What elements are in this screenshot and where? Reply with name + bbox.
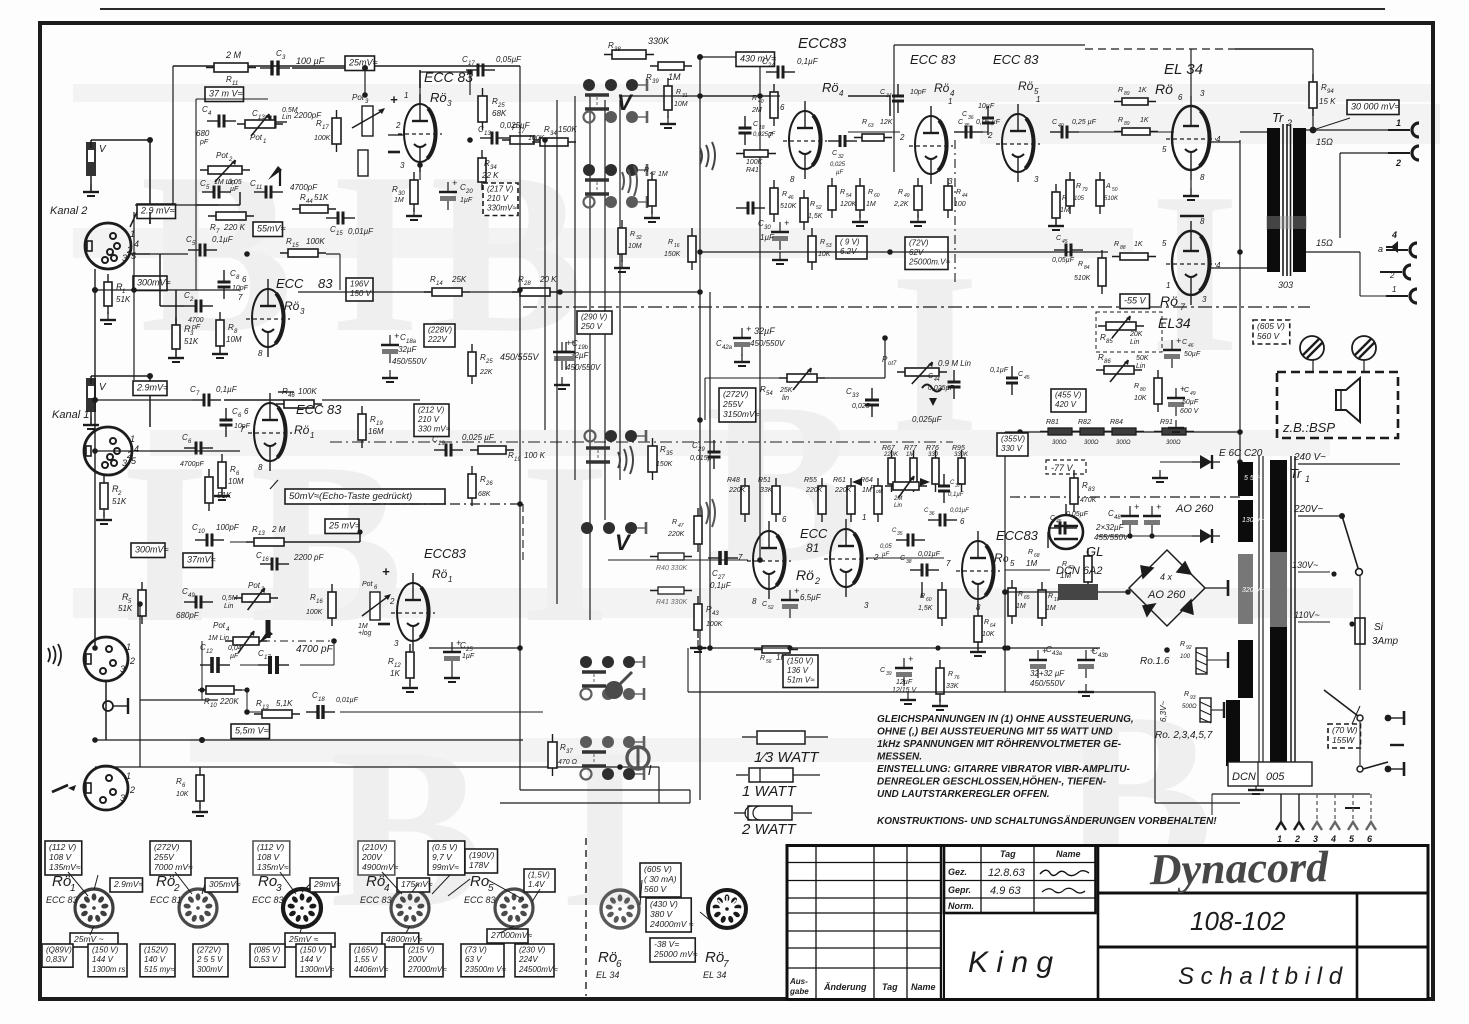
svg-text:7: 7 (946, 559, 951, 568)
svg-text:Rö: Rö (284, 299, 300, 313)
svg-text:Tr: Tr (1290, 466, 1302, 481)
resistor R40b 330K (650, 553, 692, 560)
box DCN 005 (1228, 762, 1312, 786)
label 150V box (783, 655, 818, 688)
potentiometer Pot1 (237, 120, 283, 128)
svg-text:17: 17 (322, 125, 329, 131)
ground (168, 350, 184, 362)
wire (95, 766, 659, 768)
svg-text:(112 V): (112 V) (257, 842, 284, 852)
wire input bus (94, 269, 96, 600)
svg-text:0,01µF: 0,01µF (950, 508, 969, 514)
ground (660, 116, 676, 128)
svg-text:4406mV≈: 4406mV≈ (354, 965, 389, 974)
svg-text:(150 V): (150 V) (787, 657, 814, 666)
svg-text:38: 38 (614, 47, 621, 53)
svg-text:178V: 178V (469, 860, 490, 870)
revision table grid (787, 845, 941, 1000)
svg-text:R95: R95 (952, 445, 965, 452)
svg-text:(112 V): (112 V) (49, 842, 76, 852)
wire output line2 (1340, 152, 1404, 154)
svg-text:8: 8 (790, 175, 795, 184)
connector jack 5 (1380, 265, 1411, 279)
label 55mV box (253, 222, 286, 237)
svg-text:3: 3 (300, 307, 305, 316)
resistor R16b 100K (328, 584, 336, 626)
svg-text:EL 34: EL 34 (596, 970, 619, 980)
wire vertical trunk 1 (544, 140, 546, 430)
svg-text:4: 4 (1216, 135, 1221, 144)
label box (215 V) (404, 944, 447, 977)
ground (690, 640, 706, 652)
svg-text:R: R (1134, 383, 1139, 390)
wire (700, 56, 736, 58)
svg-text:220K: 220K (883, 452, 899, 458)
ground (932, 698, 948, 710)
capacitor C11 (254, 186, 283, 199)
resistor R15 100K (280, 249, 326, 257)
voltage selector lever (1342, 516, 1358, 568)
svg-text:5,1K: 5,1K (276, 699, 293, 708)
svg-text:330K: 330K (954, 452, 969, 458)
svg-text:44: 44 (306, 199, 313, 205)
svg-text:12µF: 12µF (896, 679, 913, 686)
resistor R51 33K (772, 478, 780, 522)
svg-text:-77 V: -77 V (1051, 463, 1074, 473)
wire (700, 419, 760, 421)
wire (889, 232, 891, 252)
svg-text:420 V: 420 V (1055, 400, 1077, 409)
wire (1207, 659, 1228, 661)
wire (172, 66, 174, 205)
svg-text:224V: 224V (518, 955, 538, 964)
svg-text:(0.5 V): (0.5 V) (432, 842, 458, 852)
svg-text:680pF: 680pF (176, 611, 200, 620)
svg-text:7: 7 (238, 293, 243, 302)
svg-text:16: 16 (262, 557, 269, 563)
fuse Si 3Amp (1355, 618, 1365, 644)
svg-text:UND LAUTSTARKEREGLER OFFEN.: UND LAUTSTARKEREGLER OFFEN. (877, 789, 1050, 800)
svg-text:0,83V: 0,83V (46, 955, 68, 964)
wire echo left vert (195, 140, 197, 290)
svg-text:470 Ω: 470 Ω (558, 759, 578, 766)
svg-text:2: 2 (129, 785, 135, 795)
svg-text:13: 13 (484, 131, 491, 137)
svg-text:1.4V: 1.4V (528, 880, 545, 889)
wire output line1 (1306, 129, 1404, 131)
svg-text:32: 32 (636, 235, 642, 241)
svg-text:3: 3 (120, 793, 125, 803)
svg-text:35: 35 (964, 123, 970, 129)
svg-text:25mV≈: 25mV≈ (348, 58, 378, 68)
svg-text:515 my≈: 515 my≈ (144, 965, 175, 974)
svg-text:25000m.V≈: 25000m.V≈ (908, 258, 950, 267)
wire (1005, 654, 1038, 656)
label 196V box (346, 278, 373, 301)
resistor R60 1M (856, 178, 864, 218)
resistor R41 100K (736, 150, 776, 157)
svg-text:63: 63 (868, 123, 874, 129)
svg-text:25 mV=: 25 mV= (328, 521, 360, 531)
svg-text:R: R (862, 119, 867, 126)
label 300mV box (131, 543, 169, 558)
node (1002, 589, 1008, 595)
svg-text:EINSTELLUNG: GITARRE VIBRATOR: EINSTELLUNG: GITARRE VIBRATOR VIBR-AMPLI… (877, 764, 1130, 775)
ground Tr1 (1248, 782, 1264, 794)
svg-text:305mV≈: 305mV≈ (209, 879, 241, 889)
svg-text:45: 45 (1024, 375, 1030, 381)
svg-text:560 V: 560 V (1257, 331, 1281, 341)
svg-text:5: 5 (488, 883, 494, 894)
wire (419, 72, 421, 104)
label 25mV box (345, 56, 378, 71)
svg-text:510K: 510K (780, 203, 797, 210)
svg-text:7: 7 (738, 553, 743, 562)
label 455V box (1051, 389, 1086, 412)
signature 2 (1042, 888, 1085, 893)
dashed frame R85 (1096, 312, 1162, 352)
label box 1.5V (524, 869, 555, 892)
resistor R39 1M (650, 62, 692, 70)
capacitor C33 (865, 388, 879, 417)
svg-text:22K: 22K (479, 369, 493, 376)
svg-text:a: a (1378, 244, 1383, 254)
connector DIN Kanal 2 (85, 223, 139, 269)
svg-text:450/550V: 450/550V (566, 363, 601, 372)
svg-text:µF: µF (836, 170, 843, 176)
svg-text:83: 83 (1088, 487, 1095, 493)
label box (0.5 V) (428, 841, 465, 875)
svg-text:4700pF: 4700pF (180, 461, 204, 468)
resistor R6 10M (218, 454, 226, 496)
svg-text:R: R (782, 191, 787, 198)
svg-text:32µF: 32µF (398, 345, 418, 354)
resistor R93 (1200, 698, 1211, 723)
wire (1005, 591, 1058, 593)
svg-text:+: + (784, 218, 789, 228)
wire vertical trunk 2 (556, 100, 558, 604)
ground bar (1223, 702, 1225, 718)
svg-text:2200 pF: 2200 pF (293, 553, 324, 562)
capacitor C36 (928, 514, 957, 527)
svg-text:1K: 1K (1138, 87, 1147, 94)
svg-text:155W: 155W (1332, 735, 1355, 745)
svg-text:I: I (1150, 145, 1240, 400)
resistor R48 220K (741, 478, 749, 522)
svg-text:GLEICHSPANNUNGEN IN (1) OHNE A: GLEICHSPANNUNGEN IN (1) OHNE AUSSTEUERUN… (877, 714, 1134, 725)
resistor R94 15K (1309, 74, 1317, 116)
potentiometer Pot3b (234, 594, 278, 602)
svg-text:R: R (630, 231, 635, 238)
svg-text:35: 35 (666, 451, 673, 457)
svg-text:(72V): (72V) (909, 239, 929, 248)
wire (1312, 49, 1314, 82)
svg-text:140 V: 140 V (144, 955, 166, 964)
svg-text:108-102: 108-102 (1190, 906, 1286, 936)
connector jack 4 (1386, 243, 1417, 257)
resistor R89 1K (1114, 128, 1158, 135)
tube EL34 Ro6 (1166, 96, 1216, 180)
svg-text:120K: 120K (840, 201, 857, 208)
tube ECC83 Ro4b (909, 106, 953, 184)
svg-text:Tag: Tag (1000, 849, 1016, 859)
wire (1005, 431, 1240, 433)
svg-text:380 V: 380 V (650, 909, 674, 919)
svg-text:Rö: Rö (934, 81, 950, 95)
wire vertical trunk 5 (604, 100, 606, 520)
svg-text:50K: 50K (1136, 355, 1149, 362)
transformer Tr1 primary top (1270, 460, 1287, 552)
svg-text:(430 V): (430 V) (650, 899, 678, 909)
transformer Tr1 primary bot (1270, 627, 1287, 766)
resistor R13b 51K (254, 710, 300, 718)
wire (620, 95, 770, 97)
svg-text:+: + (1156, 502, 1161, 512)
tube ECC83 Ro5a (996, 104, 1040, 182)
ground (734, 354, 750, 366)
svg-text:32+32 µF: 32+32 µF (1030, 669, 1065, 678)
label 355V box (997, 433, 1028, 456)
svg-text:Rö: Rö (430, 90, 447, 105)
svg-text:220V~: 220V~ (1293, 504, 1323, 515)
wire (131, 253, 150, 255)
tube socket Rö1 (75, 889, 113, 927)
node (1125, 589, 1131, 595)
ground (644, 210, 660, 222)
svg-text:1,55 V: 1,55 V (354, 955, 378, 964)
svg-text:( 9 V): ( 9 V) (840, 238, 860, 247)
svg-text:0,05 µF: 0,05 µF (976, 119, 1001, 126)
svg-text:Pot: Pot (213, 621, 226, 630)
potentiometer Pot8 2M lin (885, 482, 927, 490)
tube ECC81 Ro2a (747, 521, 791, 599)
wire echo top (173, 65, 520, 67)
node (147, 373, 153, 379)
wire (90, 140, 92, 148)
wire dashdot y442 (330, 441, 953, 443)
capacitor C45b (1054, 244, 1083, 257)
svg-text:33K: 33K (760, 487, 773, 494)
node (1164, 647, 1170, 653)
svg-text:39: 39 (652, 79, 659, 85)
svg-text:R: R (760, 655, 765, 662)
wire vertical trunk 3 (574, 96, 576, 480)
label box (152V) (140, 944, 175, 977)
svg-text:500Ω: 500Ω (1182, 704, 1197, 710)
resistor R15 100K (276, 400, 322, 408)
svg-text:0,1µF: 0,1µF (216, 385, 238, 394)
capacitor C48a elco (1121, 502, 1139, 534)
resistor R84 510K (1098, 250, 1106, 294)
svg-text:ECC: ECC (800, 526, 828, 541)
transformer Tr2 primary winding (1267, 128, 1280, 272)
svg-text:200V: 200V (361, 852, 383, 862)
label box 605V (640, 863, 681, 897)
svg-text:50µF: 50µF (1184, 351, 1201, 358)
svg-text:Norm.: Norm. (948, 901, 974, 911)
wire (150, 253, 188, 255)
svg-text:130V~: 130V~ (1292, 560, 1318, 570)
svg-text:0,04: 0,04 (228, 645, 242, 652)
wire row290 (620, 291, 700, 293)
svg-text:1: 1 (126, 771, 131, 781)
svg-text:100K: 100K (306, 237, 325, 246)
svg-text:10M: 10M (226, 335, 242, 344)
svg-text:4: 4 (1330, 834, 1336, 844)
ground (406, 208, 422, 220)
wire (1205, 587, 1228, 589)
svg-text:42a: 42a (722, 345, 733, 351)
wire (175, 290, 177, 325)
svg-text:R: R (1118, 87, 1123, 94)
svg-text:2 WATT: 2 WATT (741, 821, 797, 838)
svg-text:10K: 10K (982, 631, 995, 638)
svg-text:DENREGLER GESCHLOSSEN,HÖHEN-,: DENREGLER GESCHLOSSEN,HÖHEN-, TIEFEN- (877, 775, 1107, 788)
svg-text:68K: 68K (478, 491, 491, 498)
resistor R3 51K (172, 317, 180, 357)
bridge rectifier 4x AO 260 (1129, 550, 1205, 626)
svg-text:36: 36 (968, 115, 974, 121)
tube ECC83 Ro1a (248, 393, 292, 471)
svg-text:65: 65 (1024, 595, 1030, 601)
wire (848, 95, 890, 97)
wire (1306, 267, 1340, 269)
svg-text:(290 V): (290 V) (581, 313, 608, 322)
svg-text:0,025µF: 0,025µF (753, 132, 775, 138)
svg-text:51K: 51K (314, 193, 329, 202)
svg-text:R76: R76 (926, 445, 939, 452)
svg-text:3: 3 (394, 639, 399, 648)
wire (1306, 251, 1360, 253)
svg-text:93: 93 (1190, 695, 1196, 701)
wire (224, 399, 284, 401)
wire vertical trunk 8 (709, 292, 711, 648)
svg-text:16: 16 (316, 599, 323, 605)
label minus (388, 151, 400, 154)
svg-text:8: 8 (976, 603, 981, 612)
svg-text:330 V: 330 V (1001, 444, 1023, 453)
ground (192, 804, 208, 816)
capacitor C15 (326, 212, 355, 225)
svg-text:Aus-: Aus- (789, 977, 808, 986)
resistor R64 1M (874, 478, 882, 522)
svg-text:Lin: Lin (894, 503, 903, 509)
svg-text:(Q89V): (Q89V) (46, 946, 72, 955)
svg-text:600 V: 600 V (1180, 408, 1200, 415)
svg-text:(190V): (190V) (469, 850, 495, 860)
svg-text:5: 5 (1162, 145, 1167, 154)
svg-text:100: 100 (954, 201, 966, 208)
resistor R16 100K (278, 391, 294, 393)
ground (402, 680, 418, 692)
label box 190V (465, 849, 498, 873)
switch row mid 1 (585, 430, 647, 462)
ground (96, 512, 112, 524)
svg-text:+: + (1176, 336, 1181, 346)
svg-text:110V~: 110V~ (1294, 610, 1320, 620)
wire (149, 140, 151, 224)
ground (614, 260, 630, 272)
svg-text:100K: 100K (298, 387, 317, 396)
svg-text:100 µF: 100 µF (296, 56, 325, 66)
svg-text:ECC 83: ECC 83 (252, 895, 284, 905)
resistor R81 300Ω (1040, 428, 1080, 435)
svg-text:R: R (1078, 261, 1083, 268)
svg-text:51K: 51K (112, 497, 127, 506)
svg-text:1K: 1K (1134, 241, 1143, 248)
wire grid EL34 Ro6 (1076, 131, 1122, 133)
label box (73 V) (461, 944, 506, 977)
capacitor C1 input (86, 142, 96, 176)
svg-text:450/550V: 450/550V (392, 357, 427, 366)
label box (085 V) (250, 944, 285, 967)
svg-text:100 K: 100 K (524, 451, 546, 460)
wire to box (1313, 118, 1350, 130)
svg-text:47: 47 (678, 523, 684, 529)
svg-text:300mV≈: 300mV≈ (135, 545, 169, 555)
wire frame (894, 44, 1085, 46)
label box 4800mV (382, 933, 423, 947)
potentiometer R86 (1096, 366, 1142, 374)
capacitor C38 (910, 564, 939, 577)
svg-text:DCN 6A2: DCN 6A2 (1056, 565, 1102, 577)
svg-text:R: R (1114, 241, 1119, 248)
resistor R47 220K (694, 508, 702, 552)
svg-text:29: 29 (697, 447, 705, 453)
svg-text:R: R (676, 89, 681, 96)
svg-text:1M: 1M (1016, 603, 1026, 610)
svg-text:4: 4 (134, 239, 139, 249)
resistor R2 51K (100, 475, 108, 517)
svg-text:108 V: 108 V (257, 852, 281, 862)
transformer Tr2 fade (1266, 216, 1307, 229)
wire (90, 176, 92, 186)
svg-text:100K: 100K (746, 159, 763, 166)
svg-text:37: 37 (955, 483, 961, 489)
label -55V box (1120, 294, 1150, 309)
svg-text:220K: 220K (667, 531, 685, 538)
resistor R34 22K (478, 150, 486, 190)
wire echo dashed mid (522, 504, 524, 560)
wire (1359, 252, 1361, 296)
svg-text:2: 2 (389, 597, 395, 606)
svg-text:26: 26 (485, 481, 493, 487)
label box (165V) (350, 944, 389, 977)
svg-text:44: 44 (934, 377, 940, 383)
title king cell line (943, 913, 945, 999)
label 212V box (414, 404, 451, 437)
svg-text:R: R (948, 671, 953, 678)
svg-text:R91: R91 (1160, 419, 1173, 426)
resistor R19 1M (358, 406, 366, 448)
svg-text:28: 28 (523, 281, 531, 287)
capacitor C18 (306, 705, 335, 719)
svg-text:10pF: 10pF (910, 89, 927, 96)
node (1310, 127, 1317, 134)
label box 25mVb (285, 933, 335, 947)
svg-text:1K: 1K (390, 669, 400, 678)
svg-text:32: 32 (838, 154, 844, 160)
wire (298, 291, 432, 293)
resistor R7 220K (208, 212, 254, 220)
legend resistor 1/3W (742, 731, 828, 744)
svg-text:0,025µF: 0,025µF (912, 415, 943, 424)
svg-text:1 WATT: 1 WATT (742, 783, 797, 800)
label echo box (285, 489, 445, 504)
transformer Tr1 sec 55V (1238, 462, 1253, 496)
capacitor C19b elco (553, 338, 571, 370)
svg-text:300Ω: 300Ω (1052, 440, 1067, 446)
